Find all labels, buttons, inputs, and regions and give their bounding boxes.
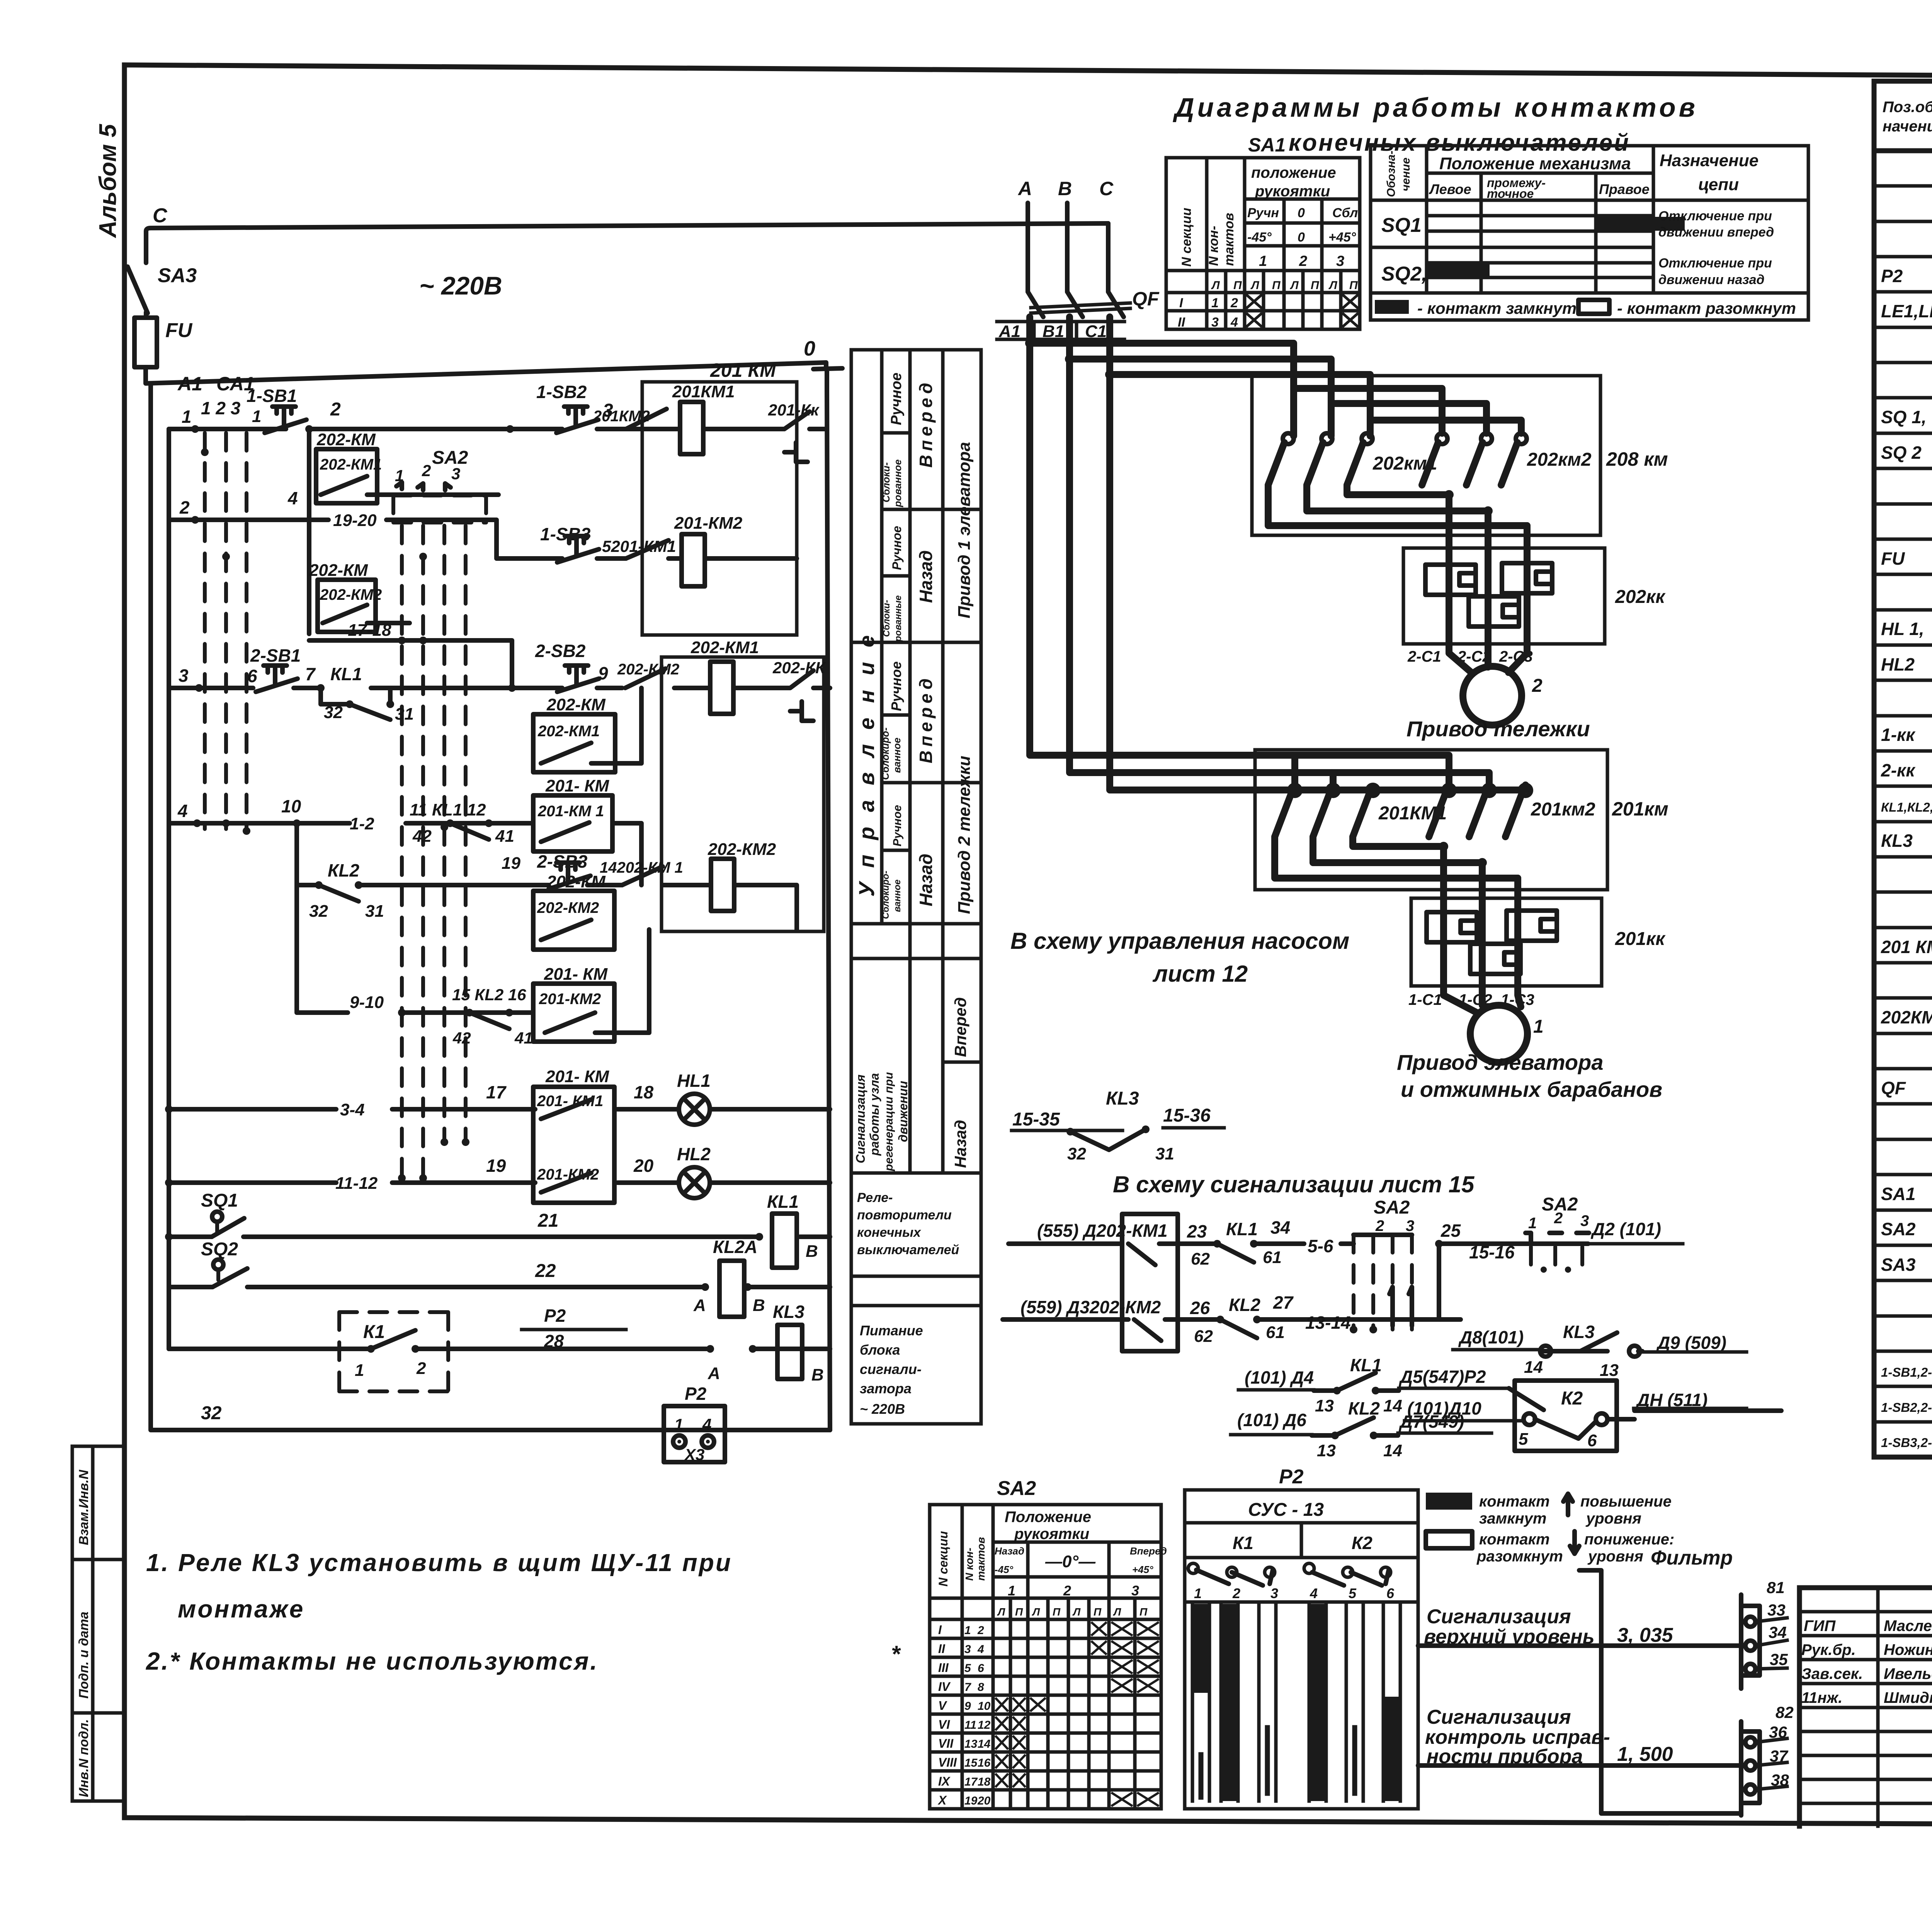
contact 202-KM1 aux [309, 429, 498, 634]
svg-text:контакт: контакт [1479, 1531, 1550, 1548]
net ~220V label [419, 271, 502, 300]
svg-text:10: 10 [978, 1700, 991, 1713]
svg-text:2.* Контакты не используют: 2.* Контакты не используются. [146, 1647, 599, 1675]
svg-text:Л: Л [1113, 1606, 1121, 1618]
svg-text:X: X [937, 1793, 947, 1807]
node C drop [1099, 178, 1114, 292]
svg-text:2: 2 [1230, 296, 1238, 310]
contact 201-KM2 aux mid [533, 930, 649, 1042]
svg-text:Положение: Положение [1005, 1508, 1091, 1525]
button 2-SB1 [247, 645, 316, 692]
svg-text:4: 4 [702, 1415, 711, 1433]
svg-text:FU: FU [165, 319, 193, 342]
svg-text:4: 4 [287, 488, 298, 508]
legend raise level [1426, 1493, 1672, 1527]
svg-text:+45°: +45° [1328, 230, 1356, 245]
svg-text:201-Кк: 201-Кк [768, 401, 820, 419]
margin stamp column [72, 1446, 124, 1801]
svg-text:Д5(547)Р2: Д5(547)Р2 [1398, 1367, 1486, 1387]
svg-text:12: 12 [978, 1719, 991, 1731]
svg-text:SА1: SА1 [1881, 1184, 1915, 1204]
net label drive1 forward [880, 373, 936, 507]
svg-text:КL3: КL3 [1563, 1322, 1595, 1342]
svg-text:SQ1: SQ1 [1381, 214, 1422, 237]
selector table SA2 bottom [930, 1477, 1167, 1809]
svg-text:5: 5 [1349, 1585, 1357, 1601]
svg-text:Правое: Правое [1599, 181, 1650, 197]
svg-text:LЕ1,LЕ2: LЕ1,LЕ2 [1881, 301, 1932, 321]
svg-text:SQ2,: SQ2, [1381, 263, 1427, 285]
svg-text:Вперед: Вперед [916, 674, 936, 763]
thermal relay 202kk [1403, 548, 1666, 644]
svg-text:37: 37 [1770, 1747, 1788, 1765]
svg-text:15-36: 15-36 [1163, 1105, 1211, 1126]
svg-text:С: С [1099, 178, 1114, 199]
node A1 B1 C1 [997, 322, 1124, 341]
svg-text:В схему сигнализации лист: В схему сигнализации лист 15 [1113, 1171, 1475, 1197]
svg-text:Поз.обоз-: Поз.обоз- [1883, 99, 1932, 116]
motor M2 [1407, 644, 1543, 725]
note 2 [146, 1647, 599, 1675]
svg-text:14: 14 [1383, 1441, 1402, 1460]
svg-text:2: 2 [1554, 1210, 1563, 1227]
svg-text:Отключение при: Отключение при [1658, 209, 1772, 223]
svg-text:2: 2 [1232, 1585, 1240, 1601]
svg-text:работы узла: работы узла [867, 1073, 881, 1156]
svg-text:13-14: 13-14 [1305, 1313, 1351, 1333]
svg-text:В: В [811, 1365, 824, 1384]
svg-text:КL1,КL2,: КL1,КL2, [1881, 800, 1932, 814]
svg-text:31: 31 [365, 902, 384, 921]
svg-text:1: 1 [355, 1361, 364, 1380]
svg-text:2: 2 [416, 1359, 426, 1378]
svg-text:202-КМ1: 202-КМ1 [537, 723, 600, 740]
svg-text:SА2: SА2 [1881, 1219, 1916, 1239]
svg-text:SA1: SA1 [1248, 134, 1286, 156]
node B [1058, 178, 1072, 292]
svg-text:N кон-: N кон- [963, 1548, 975, 1581]
parts table grid [1874, 81, 1932, 1457]
svg-text:~ 220В: ~ 220В [419, 271, 502, 300]
svg-text:Л: Л [1211, 279, 1220, 292]
svg-text:15-35: 15-35 [1012, 1109, 1060, 1130]
svg-text:18: 18 [978, 1776, 991, 1788]
coil 201KM2 [668, 514, 797, 586]
relay contact KL3 spare [1012, 1088, 1224, 1163]
svg-text:Ножин: Ножин [1884, 1641, 1932, 1658]
svg-text:выключателей: выключателей [857, 1243, 959, 1257]
svg-text:202КМ: 202КМ [1881, 1007, 1932, 1027]
relay coil KL2A [693, 1237, 765, 1317]
svg-text:П: П [1272, 279, 1281, 292]
svg-text:Шмидт: Шмидт [1884, 1689, 1932, 1706]
signature table [1799, 1588, 1932, 1826]
svg-text:SQ1: SQ1 [201, 1190, 238, 1211]
contact 202-KM1 NC rung KL2 [600, 859, 711, 885]
svg-text:3: 3 [1336, 253, 1344, 269]
svg-text:А1: А1 [177, 373, 202, 395]
svg-text:202-КМ2: 202-КМ2 [537, 899, 599, 916]
svg-text:19: 19 [502, 854, 520, 873]
svg-text:Питание: Питание [860, 1323, 923, 1338]
svg-text:11-12: 11-12 [335, 1174, 378, 1193]
motor M1 [1408, 986, 1544, 1062]
svg-text:Д2 (101): Д2 (101) [1590, 1219, 1661, 1239]
svg-text:VII: VII [938, 1737, 954, 1750]
selector SA2 [393, 448, 486, 523]
button 1-SB3 [540, 524, 599, 562]
contact D6 KL2 D7 [1231, 1398, 1492, 1460]
svg-text:17-18: 17-18 [348, 621, 391, 640]
svg-text:202-КМ1: 202-КМ1 [320, 456, 382, 473]
breaker QF [1028, 288, 1160, 317]
svg-text:27: 27 [1273, 1292, 1294, 1313]
wire ladder outer border [151, 386, 830, 1430]
svg-text:16: 16 [978, 1757, 991, 1769]
svg-text:Вперед: Вперед [951, 997, 969, 1057]
svg-text:208 км: 208 км [1606, 448, 1668, 470]
contact D3 202-KM2 [1003, 1297, 1190, 1341]
svg-text:201-КМ2: 201-КМ2 [539, 991, 601, 1008]
svg-text:0: 0 [1298, 230, 1305, 245]
coil 201KM1 [672, 382, 735, 454]
svg-text:15 КL2 16: 15 КL2 16 [452, 986, 526, 1004]
svg-text:точное: точное [1487, 187, 1534, 201]
wire rung 1 [169, 407, 757, 433]
svg-text:I: I [1179, 296, 1184, 310]
note to signal circuit [1113, 1171, 1475, 1197]
svg-text:(101) Д6: (101) Д6 [1237, 1410, 1306, 1430]
svg-text:В: В [1058, 178, 1072, 199]
svg-text:201 КМ: 201 КМ [710, 359, 776, 381]
svg-text:-45°: -45° [995, 1564, 1014, 1575]
svg-text:202-КМ2: 202-КМ2 [707, 840, 776, 859]
relay contact KL1 sig [1187, 1217, 1304, 1268]
net label drive1 back [881, 526, 936, 642]
svg-text:2: 2 [1375, 1217, 1384, 1234]
wire 201 cross jogs top [1295, 755, 1526, 790]
label trolley drive [1406, 717, 1590, 741]
svg-text:Вперед: Вперед [916, 379, 936, 468]
svg-text:32: 32 [309, 902, 328, 921]
svg-text:Ручное: Ручное [888, 373, 905, 425]
wire ladder left bus [167, 429, 171, 1349]
svg-text:1-С1: 1-С1 [1408, 991, 1442, 1008]
svg-text:202км2: 202км2 [1527, 449, 1592, 470]
contact 201-KM1 NO [602, 537, 676, 558]
svg-text:Реле-: Реле- [857, 1190, 893, 1205]
svg-text:повторители: повторители [857, 1208, 952, 1222]
svg-text:SA3: SA3 [158, 264, 197, 287]
svg-text:Сблокиро-: Сблокиро- [879, 727, 891, 780]
relay contact K1 [339, 1312, 448, 1391]
limit switch SQ2 [201, 1239, 247, 1287]
node A1 [177, 373, 202, 395]
svg-text:2: 2 [977, 1624, 984, 1637]
switch CA1 [201, 373, 255, 835]
svg-text:(559) Д3202-КМ2: (559) Д3202-КМ2 [1020, 1297, 1161, 1317]
svg-text:рованные: рованные [893, 595, 903, 642]
svg-text:201- КМ: 201- КМ [545, 1067, 609, 1086]
svg-text:N секции: N секции [936, 1531, 950, 1587]
svg-text:1-кк: 1-кк [1881, 725, 1916, 745]
net 13-14 sig [1305, 1313, 1351, 1333]
contactor block 202KM frame [1252, 376, 1600, 535]
svg-text:Л: Л [1032, 1606, 1040, 1618]
svg-text:26: 26 [1190, 1298, 1210, 1318]
net label power supply [860, 1323, 923, 1417]
svg-text:-45°: -45° [1247, 230, 1272, 245]
svg-text:Л: Л [1328, 279, 1338, 292]
svg-text:81: 81 [1767, 1578, 1785, 1597]
svg-text:конечных выключателей: конечных выключателей [1289, 129, 1630, 156]
svg-text:КL1: КL1 [1226, 1219, 1258, 1239]
svg-text:4: 4 [177, 801, 188, 821]
net label drive2 forward [879, 661, 936, 780]
svg-text:25: 25 [1440, 1221, 1461, 1241]
contact D202-KM1 [1009, 1214, 1187, 1351]
svg-text:3: 3 [1580, 1212, 1589, 1229]
selector SA2 sig2 [1522, 1194, 1589, 1273]
svg-text:FU: FU [1881, 548, 1905, 569]
svg-text:202-КМ1: 202-КМ1 [690, 638, 759, 657]
selector SA2 sig1 [1341, 1197, 1461, 1333]
svg-text:тактов: тактов [1222, 213, 1236, 266]
svg-text:Масленков: Масленков [1884, 1617, 1932, 1634]
svg-text:Р2: Р2 [685, 1384, 707, 1404]
svg-text:3: 3 [451, 465, 460, 483]
svg-text:SА3: SА3 [1881, 1255, 1916, 1275]
svg-text:Д8(101): Д8(101) [1458, 1327, 1524, 1347]
svg-text:14: 14 [1383, 1396, 1402, 1415]
wire rung 2 [169, 488, 626, 558]
wire phase A feed [1025, 317, 1295, 789]
button 2-SB2 [535, 641, 608, 692]
svg-text:II: II [1178, 315, 1185, 330]
svg-text:П: П [1094, 1606, 1102, 1618]
svg-text:14: 14 [978, 1738, 991, 1750]
svg-text:К2: К2 [1561, 1388, 1583, 1409]
svg-text:13: 13 [964, 1738, 978, 1750]
level switch table P2 SUS-13 [1185, 1466, 1418, 1809]
node 0 terminal [804, 337, 842, 388]
label elevator drive [1397, 1050, 1662, 1102]
svg-text:HL2: HL2 [677, 1144, 711, 1164]
terminal strip 82 [1741, 1703, 1794, 1815]
svg-text:К2: К2 [1352, 1533, 1372, 1553]
svg-text:1-SВ2,2-SВ2: 1-SВ2,2-SВ2 [1881, 1400, 1932, 1415]
wire FU to node 0 [146, 363, 826, 383]
svg-text:I: I [938, 1623, 942, 1637]
svg-text:III: III [938, 1661, 949, 1675]
svg-text:Фильтр: Фильтр [1651, 1547, 1733, 1569]
svg-text:регенерации при: регенерации при [883, 1072, 895, 1171]
svg-text:КL3: КL3 [1881, 831, 1913, 851]
wire 202 cross bars bottom [1268, 485, 1527, 548]
svg-text:5-6: 5-6 [1308, 1236, 1333, 1256]
svg-text:X3: X3 [684, 1445, 704, 1464]
svg-text:Левое: Левое [1429, 181, 1471, 197]
svg-text:Привод тележки: Привод тележки [1406, 717, 1590, 741]
svg-text:202-КК: 202-КК [772, 659, 827, 677]
svg-text:7: 7 [305, 664, 316, 684]
svg-text:П: П [1349, 279, 1358, 292]
svg-text:Диаграммы работы контактов: Диаграммы работы контактов [1173, 92, 1698, 123]
svg-text:начение: начение [1883, 118, 1932, 135]
wire 17-18 [309, 621, 512, 688]
svg-text:15: 15 [964, 1757, 978, 1769]
svg-text:Инв.N подл.: Инв.N подл. [77, 1719, 91, 1797]
svg-text:С: С [153, 204, 168, 227]
svg-text:32: 32 [1067, 1144, 1086, 1163]
fuse FU [134, 318, 193, 367]
svg-text:КL2: КL2 [328, 860, 359, 880]
label upper level signalling [1424, 1605, 1673, 1648]
svg-text:1-2: 1-2 [350, 814, 374, 833]
svg-text:1-SВ2: 1-SВ2 [536, 382, 587, 402]
switch SA3 [128, 264, 197, 313]
relay contact K2 [1515, 1381, 1617, 1451]
svg-text:- контакт замкнут: - контакт замкнут [1417, 299, 1577, 317]
svg-text:Назад: Назад [995, 1545, 1024, 1557]
svg-text:- контакт разомкнут: - контакт разомкнут [1617, 299, 1796, 317]
svg-text:17: 17 [486, 1082, 507, 1102]
relay contact KL2 [297, 823, 622, 921]
svg-text:3: 3 [1270, 1585, 1278, 1601]
svg-text:SA2: SA2 [997, 1477, 1036, 1500]
svg-text:QF: QF [1132, 288, 1160, 310]
wire SA3 to FU [144, 237, 148, 318]
wire rung 4 [169, 796, 641, 885]
svg-text:SA2: SA2 [432, 448, 468, 468]
svg-text:5: 5 [1519, 1430, 1528, 1449]
svg-text:Рук.бр.: Рук.бр. [1801, 1641, 1856, 1658]
svg-text:А: А [693, 1296, 706, 1315]
svg-text:201-КМ2: 201-КМ2 [674, 514, 743, 533]
svg-text:движении: движении [896, 1081, 910, 1142]
asterisk mark [891, 1641, 901, 1667]
svg-text:17: 17 [964, 1776, 978, 1788]
svg-text:QF: QF [1881, 1078, 1906, 1098]
svg-text:22: 22 [535, 1261, 556, 1281]
svg-text:Назад: Назад [951, 1120, 969, 1168]
svg-text:Л: Л [1072, 1606, 1081, 1618]
svg-text:Привод элеватора: Привод элеватора [1397, 1050, 1604, 1074]
contact 202km1 poles [1268, 433, 1437, 485]
svg-text:Привод 1 элеватора: Привод 1 элеватора [955, 442, 974, 618]
svg-text:9-10: 9-10 [350, 993, 384, 1012]
svg-text:14: 14 [1524, 1358, 1543, 1377]
svg-text:Сблоки-: Сблоки- [880, 462, 892, 502]
wire rung HL1 [165, 1082, 830, 1119]
svg-text:уровня: уровня [1585, 1510, 1641, 1527]
net label drive2 back [881, 805, 936, 919]
svg-text:А: А [707, 1364, 720, 1383]
svg-text:Сигнализация: Сигнализация [1427, 1706, 1571, 1728]
svg-text:N кон-: N кон- [1206, 226, 1221, 266]
wire 202 cross jogs top [1294, 388, 1521, 433]
svg-text:Р2: Р2 [1881, 266, 1903, 286]
limit switch SQ1 [201, 1190, 244, 1237]
contact 201km2 poles [1429, 785, 1668, 837]
svg-text:N секции: N секции [1179, 208, 1194, 267]
svg-text:КL2: КL2 [1229, 1295, 1260, 1315]
svg-text:КL3: КL3 [773, 1302, 804, 1322]
wire rung 3 [169, 666, 767, 692]
svg-text:чение: чение [1400, 158, 1412, 191]
svg-text:9: 9 [598, 663, 608, 683]
svg-text:6: 6 [978, 1662, 984, 1675]
svg-text:Назад: Назад [916, 854, 936, 906]
svg-text:201км: 201км [1612, 798, 1668, 820]
svg-text:П: П [1015, 1606, 1023, 1618]
contactor frame 202-KM [662, 657, 824, 931]
net P2-28 label [522, 1306, 626, 1351]
wire phase B feed [1065, 317, 1333, 789]
svg-text:рукоятки: рукоятки [1255, 183, 1330, 200]
svg-text:2-SВ1: 2-SВ1 [250, 645, 301, 666]
svg-text:СУС - 13: СУС - 13 [1248, 1500, 1324, 1520]
node 3 [603, 400, 613, 421]
svg-text:Назад: Назад [916, 550, 936, 603]
net 5-6 [1308, 1236, 1333, 1256]
svg-text:П: П [1233, 279, 1242, 292]
thermal relay 201kk [1411, 898, 1666, 986]
title block frame [1799, 1588, 1932, 1826]
svg-text:1: 1 [1194, 1585, 1202, 1601]
svg-text:А: А [1017, 178, 1032, 199]
svg-text:202кк: 202кк [1615, 587, 1666, 607]
wire level 3035 [1418, 1643, 1741, 1648]
contact 201KM2 NC [593, 408, 667, 429]
svg-text:19-20: 19-20 [333, 511, 377, 530]
svg-text:Ручное: Ручное [888, 661, 904, 711]
svg-text:Сблоки-: Сблоки- [881, 600, 892, 637]
svg-text:2: 2 [330, 399, 341, 420]
svg-text:Ручное: Ручное [890, 526, 904, 570]
contact 202-KM1 aux mid [533, 688, 641, 772]
svg-text:SQ 2: SQ 2 [1881, 443, 1922, 463]
svg-text:19: 19 [964, 1794, 978, 1807]
svg-text:лист 12: лист 12 [1152, 961, 1248, 987]
svg-text:3: 3 [1211, 315, 1219, 330]
svg-text:3: 3 [1406, 1217, 1414, 1234]
svg-text:Сигнализация: Сигнализация [1427, 1605, 1571, 1628]
svg-text:11: 11 [964, 1719, 976, 1731]
svg-text:П: П [1053, 1606, 1061, 1618]
heading line 2 [1289, 129, 1630, 156]
svg-text:3, 035: 3, 035 [1617, 1624, 1673, 1646]
lamp HL2 [677, 1144, 711, 1198]
heading line 1 [1173, 92, 1698, 123]
svg-text:201КМ1: 201КМ1 [672, 382, 735, 401]
svg-text:SQ2: SQ2 [201, 1239, 238, 1260]
svg-text:понижение:: понижение: [1584, 1531, 1674, 1548]
svg-text:3-4: 3-4 [340, 1100, 365, 1119]
wire ladder right bus [827, 388, 830, 1430]
wire SA2 dashed columns [398, 526, 469, 1182]
svg-text:8: 8 [978, 1681, 984, 1694]
svg-text:1: 1 [1533, 1016, 1544, 1037]
svg-text:33: 33 [1767, 1601, 1786, 1619]
svg-text:уровня: уровня [1587, 1548, 1643, 1565]
function table grid [851, 350, 981, 1424]
svg-text:Л: Л [1250, 279, 1260, 292]
relay contact KL2 on 9-10 [404, 986, 533, 1047]
svg-text:201км2: 201км2 [1531, 799, 1595, 820]
svg-text:разомкнут: разомкнут [1476, 1548, 1563, 1565]
svg-text:62: 62 [1194, 1327, 1213, 1346]
